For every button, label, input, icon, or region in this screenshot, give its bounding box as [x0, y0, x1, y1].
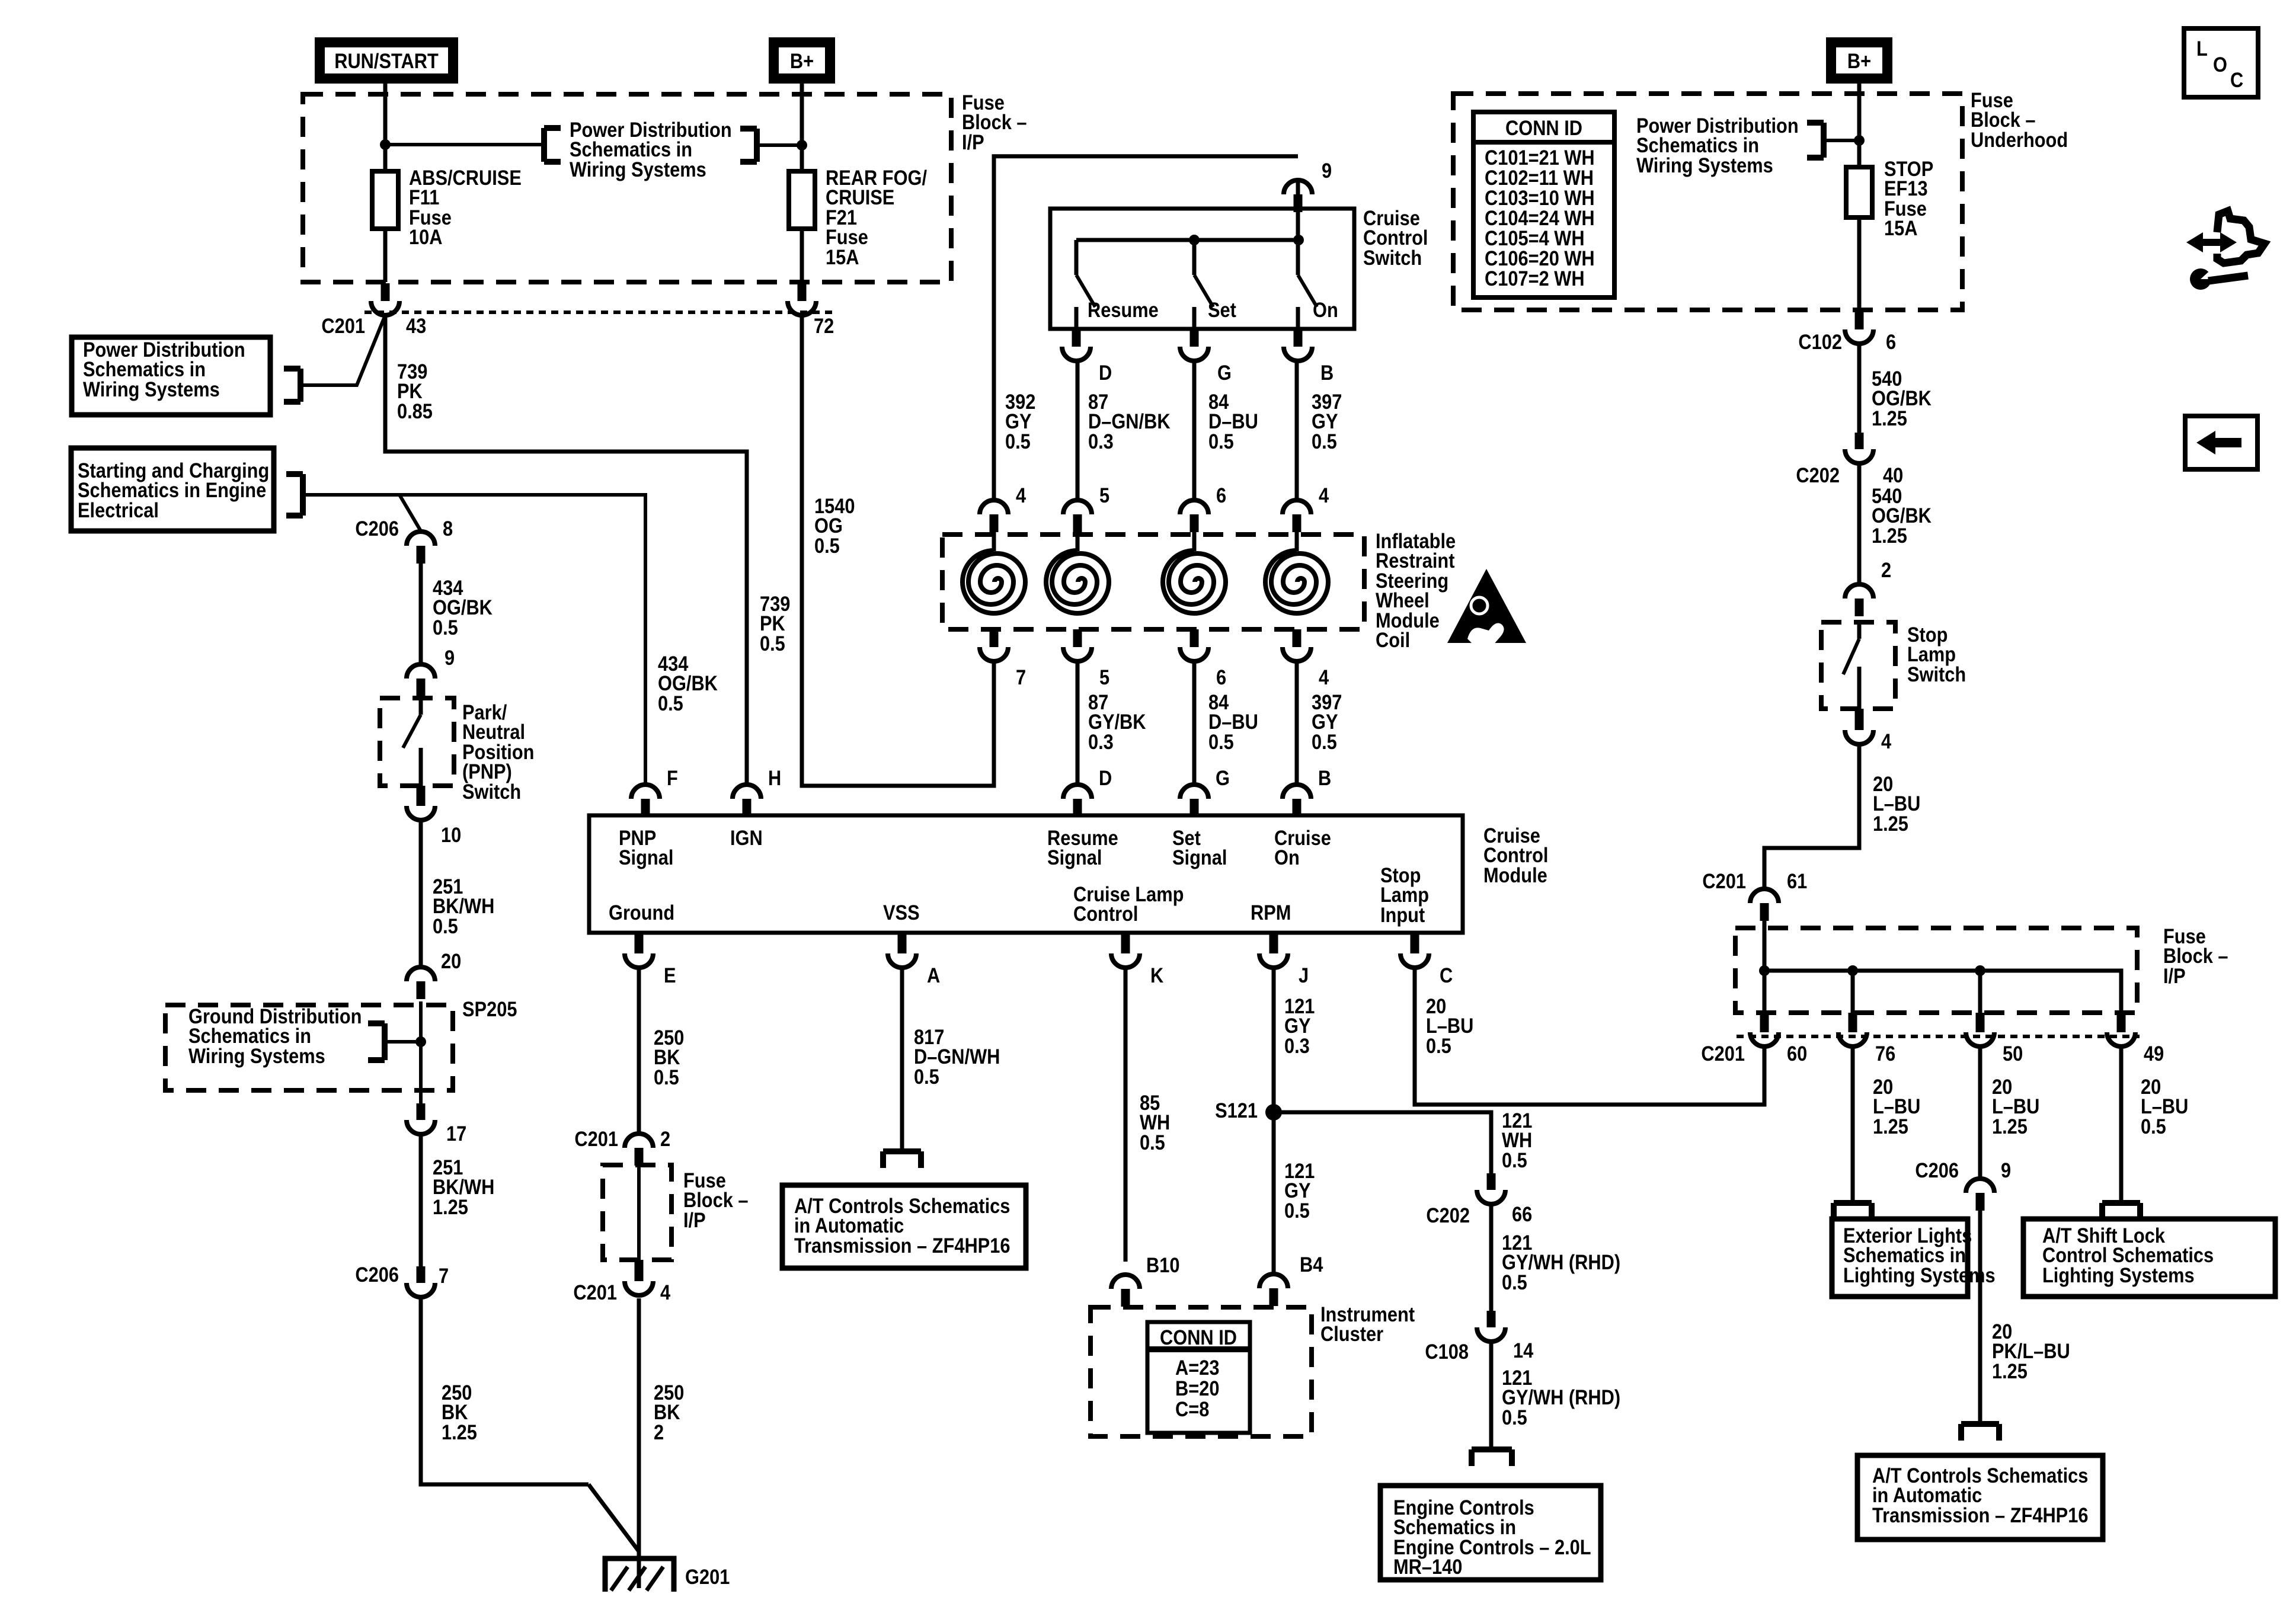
label wire 1540 OG 0.5 — [814, 494, 855, 557]
label C102 6 — [1798, 330, 1896, 353]
label 87 D-GN/BK 0.3 — [1088, 390, 1171, 453]
svg-text:G201: G201 — [685, 1565, 730, 1588]
svg-text:Switch: Switch — [1907, 663, 1966, 686]
label 4 — [1881, 729, 1892, 753]
svg-text:K: K — [1150, 964, 1163, 987]
svg-text:14: 14 — [1513, 1339, 1534, 1362]
label A — [927, 964, 940, 987]
label 251 BK/WH 1.25 — [433, 1156, 494, 1218]
splice S121 — [1265, 1104, 1282, 1121]
reference bracket (power distribution right) — [1807, 123, 1824, 158]
wire RUN/START to fuse F11 — [383, 84, 388, 282]
connector coil bottom pin 4 — [1283, 629, 1311, 661]
label fuse block I/P — [962, 91, 1027, 153]
airbag warning triangle icon — [1447, 569, 1526, 648]
switch internal bus — [1076, 235, 1304, 245]
label park/neutral position (PNP) switch — [462, 700, 534, 803]
reference bracket (A/T controls) — [883, 1151, 921, 1168]
label 397 GY 0.5 — [1312, 390, 1342, 453]
svg-text:0.5: 0.5 — [760, 632, 785, 655]
PNP switch contacts and blade — [403, 698, 421, 786]
connector B10 (instrument cluster) — [1111, 1275, 1140, 1307]
connector module top pin H — [733, 785, 761, 815]
svg-text:B=20: B=20 — [1175, 1377, 1219, 1400]
svg-text:0.5: 0.5 — [1312, 430, 1337, 453]
wire through fuse block — [637, 1166, 641, 1260]
wire 20 PK/L-BU 1.25 — [1978, 1211, 1982, 1424]
svg-text:0.5: 0.5 — [2141, 1115, 2166, 1138]
connector coil top pin 6 — [1180, 500, 1208, 532]
wire to engine controls — [1489, 1342, 1494, 1449]
svg-text:A=23: A=23 — [1175, 1356, 1219, 1379]
connector pin 4 (below stop lamp switch) — [1845, 709, 1873, 744]
label C206 9 — [1915, 1158, 2011, 1182]
connector G below switch — [1180, 329, 1232, 384]
label 84 D-BU 0.5 — [1208, 390, 1258, 453]
wire to power distribution reference (B+) — [757, 143, 802, 147]
label 84 D-BU 0.5 (lower) — [1208, 690, 1258, 753]
svg-text:1.25: 1.25 — [1873, 1115, 1908, 1138]
svg-text:Ground: Ground — [609, 901, 674, 924]
label pin 7 — [1016, 665, 1026, 689]
connector module top pin F — [631, 785, 660, 815]
connector C201 pin 4 — [625, 1260, 653, 1295]
svg-text:Transmission – ZF4HP16: Transmission – ZF4HP16 — [1872, 1503, 2088, 1526]
label K — [1150, 964, 1163, 987]
connector pin 17 — [407, 1103, 435, 1134]
svg-text:20: 20 — [441, 949, 461, 972]
label 72 — [814, 314, 834, 337]
label B10 — [1146, 1253, 1179, 1276]
svg-text:MR–140: MR–140 — [1393, 1555, 1462, 1578]
wire 540 OG/BK 1.25 (2) — [1857, 463, 1862, 584]
label 20 L-BU 0.5 — [1426, 994, 1473, 1057]
svg-text:15A: 15A — [826, 245, 859, 268]
module input labels top row — [619, 826, 1429, 926]
cruise control switch box — [1050, 209, 1354, 329]
connector pin 10 — [407, 786, 435, 820]
svg-text:4: 4 — [1881, 729, 1892, 753]
svg-text:C: C — [2230, 68, 2243, 91]
wire 250 BK 1.25 to ground — [421, 1297, 639, 1551]
coil spiral 3 — [1163, 532, 1226, 613]
wire 20 L-BU 1.25 to C201-61 — [1764, 744, 1859, 889]
svg-text:CONN ID: CONN ID — [1160, 1326, 1237, 1349]
ground symbol G201 — [605, 1558, 674, 1592]
switch On — [1298, 240, 1317, 329]
label power distribution schematics (right) — [1636, 114, 1799, 177]
label pin 4 — [1319, 484, 1329, 507]
fuse block I/P dashed box (top left) — [303, 94, 951, 282]
wire 20 L-BU 0.5 stop lamp input — [1415, 968, 1764, 1105]
svg-text:RUN/START: RUN/START — [334, 49, 439, 72]
label fuse block I/P (right) — [2163, 924, 2228, 987]
svg-text:0.3: 0.3 — [1088, 730, 1114, 753]
svg-text:C201: C201 — [321, 314, 365, 337]
stop lamp switch dashed box — [1821, 622, 1895, 709]
svg-text:Coil: Coil — [1376, 628, 1410, 651]
label fuse block underhood — [1971, 88, 2068, 151]
svg-text:0.5: 0.5 — [1502, 1270, 1527, 1294]
svg-text:0.3: 0.3 — [1088, 430, 1114, 453]
switch Set — [1194, 240, 1213, 329]
label F — [667, 766, 678, 789]
svg-text:C102: C102 — [1798, 330, 1842, 353]
connector coil top pin 5 — [1063, 500, 1092, 532]
svg-text:0.5: 0.5 — [433, 616, 458, 639]
connector C201 pin 43 — [371, 283, 399, 315]
svg-text:0.5: 0.5 — [1426, 1034, 1451, 1057]
svg-text:4: 4 — [1016, 484, 1027, 507]
svg-text:0.5: 0.5 — [1005, 430, 1031, 453]
connector module bottom pin K — [1111, 933, 1140, 968]
wire 739 PK to IGN input H — [385, 315, 747, 785]
label B — [1318, 766, 1331, 789]
svg-text:A: A — [927, 964, 940, 987]
svg-text:Switch: Switch — [1363, 246, 1422, 269]
wire switch pin 9 riser — [994, 156, 1298, 500]
label 20 L-BU 1.25 (76) — [1873, 1075, 1920, 1138]
svg-text:C201: C201 — [1701, 1042, 1745, 1065]
svg-text:60: 60 — [1787, 1042, 1807, 1065]
svg-text:0.5: 0.5 — [658, 692, 683, 715]
connector coil top pin 4 — [980, 500, 1008, 532]
label 20 — [441, 949, 461, 972]
wire through SP205 — [419, 1001, 423, 1103]
reference bracket (engine controls) — [1472, 1449, 1512, 1466]
connector D below switch — [1062, 329, 1112, 384]
label pin 5 — [1099, 484, 1109, 507]
svg-text:D: D — [1099, 766, 1112, 789]
wires D G B to coil — [1077, 361, 1297, 500]
label wire 739 PK 0.85 — [397, 360, 433, 423]
svg-text:5: 5 — [1099, 484, 1109, 507]
connector C206 pin 9 — [1966, 1179, 1994, 1211]
reference box starting and charging schematics — [71, 448, 274, 531]
svg-text:40: 40 — [1883, 463, 1903, 487]
wire 121 GY/WH (RHD) — [1489, 1204, 1494, 1311]
connector C201 pin 49 — [2107, 1013, 2135, 1046]
connector C102 pin 6 — [1845, 310, 1873, 344]
connector C108 pin 14 — [1477, 1311, 1505, 1342]
svg-text:Module: Module — [1483, 863, 1547, 886]
instrument cluster dashed box — [1091, 1307, 1312, 1436]
svg-text:Signal: Signal — [1172, 846, 1227, 869]
svg-text:4: 4 — [1319, 484, 1329, 507]
label On — [1313, 298, 1338, 321]
svg-text:8: 8 — [443, 517, 453, 540]
coil spiral 2 — [1046, 532, 1109, 613]
wire 250 BK 2 to ground — [637, 1298, 641, 1588]
svg-text:17: 17 — [446, 1122, 466, 1145]
svg-text:L: L — [2196, 37, 2208, 60]
splice node SP205 — [415, 1036, 426, 1047]
connector coil bottom pin 6 — [1180, 629, 1208, 661]
svg-text:0.5: 0.5 — [1208, 430, 1234, 453]
power feed B+ (right) — [1826, 37, 1892, 84]
svg-text:I/P: I/P — [683, 1208, 706, 1231]
wire bracket to B+ feed — [1824, 139, 1859, 142]
label S121 — [1215, 1099, 1258, 1122]
wires coil to module inputs — [1077, 661, 1297, 785]
svg-text:Signal: Signal — [619, 846, 673, 869]
svg-text:0.5: 0.5 — [1208, 730, 1234, 753]
svg-text:H: H — [768, 766, 781, 789]
LOC legend box — [2184, 28, 2258, 97]
label Resume — [1088, 298, 1159, 321]
label G — [1216, 766, 1230, 789]
svg-text:0.5: 0.5 — [814, 534, 840, 557]
connector C202 pin 40 — [1845, 433, 1873, 463]
label 250 BK 2 — [654, 1381, 684, 1444]
label pin 6 — [1216, 665, 1226, 689]
wire 20 L-BU 1.25 (pin 76) — [1851, 1046, 1855, 1203]
svg-text:Wiring Systems: Wiring Systems — [1636, 153, 1773, 177]
label 251 BK/WH 0.5 — [433, 875, 494, 937]
svg-text:C201: C201 — [574, 1127, 618, 1150]
label wire 739 PK 0.5 — [760, 592, 790, 655]
label C — [1440, 964, 1453, 987]
svg-text:9: 9 — [445, 646, 455, 669]
label C202 66 — [1426, 1202, 1532, 1227]
connector C206 pin 8 — [407, 532, 435, 564]
reference box exterior lights schematics — [1832, 1219, 1996, 1297]
fuse F21 REAR FOG/CRUISE 15A — [789, 171, 815, 229]
label C201 2 — [574, 1127, 670, 1150]
svg-text:Signal: Signal — [1047, 846, 1102, 869]
wire B+ to fuse F21 — [800, 84, 804, 282]
label pin 6 — [1216, 484, 1226, 507]
reference bracket (power distribution, left) — [544, 128, 561, 162]
reference bracket (starting and charging) — [286, 474, 303, 516]
label 76 — [1875, 1042, 1895, 1065]
reference bracket (power distribution, right side of text) — [740, 129, 757, 162]
label fuse EF13 — [1884, 157, 1933, 239]
fuse F11 ABS/CRUISE 10A — [372, 171, 398, 229]
label C108 14 — [1425, 1339, 1533, 1363]
label D — [1099, 766, 1112, 789]
reference bracket at power distribution box — [284, 369, 300, 402]
label C201 43 — [321, 314, 426, 337]
svg-text:10: 10 — [441, 823, 461, 846]
label 121 WH 0.5 — [1502, 1109, 1532, 1172]
label 121 GY/WH (RHD) 0.5 — [1502, 1231, 1620, 1294]
label J — [1299, 964, 1309, 987]
label H — [768, 766, 781, 789]
svg-text:50: 50 — [2003, 1042, 2023, 1065]
connector pin 9 (PNP switch) — [407, 664, 435, 696]
wire 251 BK/WH 0.5 — [419, 820, 423, 966]
label C201 (bottom row) — [1701, 1042, 1745, 1065]
wire 85 WH 0.5 — [1124, 968, 1128, 1262]
svg-text:1.25: 1.25 — [1992, 1359, 2028, 1382]
label inflatable restraint steering wheel module coil — [1376, 529, 1456, 651]
label 817 D-GN/WH 0.5 — [914, 1025, 1000, 1088]
label pin 5 — [1099, 665, 1109, 689]
svg-text:15A: 15A — [1884, 216, 1917, 239]
svg-text:76: 76 — [1875, 1042, 1895, 1065]
svg-text:B: B — [1318, 766, 1331, 789]
reference bracket (A/T controls right) — [1961, 1424, 1999, 1441]
cruise control module box — [589, 815, 1463, 933]
svg-text:IGN: IGN — [730, 826, 763, 849]
label 85 WH 0.5 — [1140, 1091, 1170, 1154]
wire to power distribution reference — [385, 143, 544, 146]
label 434 OG/BK 0.5 (F branch) — [658, 652, 718, 715]
svg-text:43: 43 — [406, 314, 426, 337]
connector module bottom pin A — [888, 933, 916, 968]
svg-text:0.5: 0.5 — [1140, 1131, 1165, 1154]
label C201 4 — [573, 1281, 670, 1304]
module output labels bottom row — [609, 882, 1291, 925]
svg-text:Wiring Systems: Wiring Systems — [188, 1044, 325, 1067]
svg-text:49: 49 — [2144, 1042, 2164, 1065]
svg-text:0.85: 0.85 — [397, 399, 433, 423]
label instrument cluster — [1320, 1302, 1415, 1345]
connector coil top pin 4 — [1283, 500, 1311, 532]
connector pin 20 (into SP205) — [407, 967, 435, 999]
svg-text:1.25: 1.25 — [442, 1420, 477, 1444]
wire 540 OG/BK 1.25 — [1857, 344, 1862, 433]
reference bracket (exterior lights) — [1834, 1203, 1872, 1220]
svg-text:1.25: 1.25 — [1872, 407, 1907, 430]
svg-text:0.5: 0.5 — [1284, 1199, 1310, 1222]
svg-text:C206: C206 — [1915, 1158, 1959, 1182]
wire 817 D-GN/WH — [900, 968, 904, 1151]
svg-text:Control: Control — [1073, 902, 1138, 925]
label 540 OG/BK 1.25 (2) — [1872, 484, 1932, 547]
dotted connector row C201 — [1737, 1035, 2140, 1038]
connector C201 pin 50 — [1966, 1013, 1994, 1046]
label 121 GY 0.5 — [1284, 1159, 1315, 1222]
svg-text:4: 4 — [660, 1281, 671, 1304]
svg-text:Input: Input — [1380, 903, 1425, 926]
bus junction nodes — [1759, 965, 1985, 976]
svg-text:Cluster: Cluster — [1320, 1322, 1383, 1345]
svg-text:1.25: 1.25 — [1872, 524, 1907, 547]
label 250 BK 1.25 — [442, 1381, 477, 1444]
svg-text:1.25: 1.25 — [1992, 1115, 2028, 1138]
wire B+ to fuse EF13 — [1857, 84, 1862, 310]
label C202 40 — [1796, 463, 1903, 487]
svg-text:Wiring Systems: Wiring Systems — [570, 158, 706, 181]
label 60 — [1787, 1042, 1807, 1065]
wire 250 BK 0.5 — [637, 968, 641, 1134]
svg-text:Transmission – ZF4HP16: Transmission – ZF4HP16 — [794, 1234, 1010, 1257]
label stop lamp switch — [1907, 623, 1966, 686]
label 434 OG/BK 0.5 — [433, 576, 493, 639]
label ground distribution schematics — [188, 1004, 362, 1067]
fuse block underhood dashed box — [1453, 94, 1962, 310]
label 2 — [1881, 558, 1891, 581]
svg-text:0.5: 0.5 — [914, 1065, 939, 1088]
svg-text:Wiring Systems: Wiring Systems — [83, 377, 220, 401]
svg-text:0.5: 0.5 — [1312, 730, 1337, 753]
svg-text:On: On — [1313, 298, 1338, 321]
label G201 — [685, 1565, 730, 1588]
svg-text:J: J — [1299, 964, 1309, 987]
connector 9 (cruise switch) — [1284, 180, 1312, 212]
wire 251 BK/WH 1.25 — [419, 1134, 423, 1266]
svg-text:6: 6 — [1216, 665, 1226, 689]
svg-text:Set: Set — [1208, 298, 1236, 321]
svg-text:Lighting Systems: Lighting Systems — [1843, 1263, 1996, 1286]
svg-text:C201: C201 — [573, 1281, 617, 1304]
wire 121 GY — [1272, 968, 1276, 1274]
label 121 GY 0.3 — [1284, 994, 1315, 1057]
stop lamp switch contacts and blade — [1843, 622, 1859, 709]
svg-text:G: G — [1217, 361, 1232, 384]
connector C201 pin 61 — [1750, 889, 1779, 921]
svg-text:Electrical: Electrical — [78, 498, 159, 521]
connector coil bottom pin 5 — [1063, 629, 1092, 661]
power feed B+ (left) — [769, 37, 835, 84]
svg-text:7: 7 — [439, 1264, 449, 1287]
svg-text:72: 72 — [814, 314, 834, 337]
svg-text:B10: B10 — [1146, 1253, 1179, 1276]
label Set — [1208, 298, 1236, 321]
label 9 — [1322, 159, 1332, 182]
svg-text:Underhood: Underhood — [1971, 128, 2068, 151]
connector C201 pin 60 — [1750, 1013, 1779, 1046]
svg-text:C: C — [1440, 964, 1453, 987]
svg-text:B+: B+ — [790, 49, 814, 72]
svg-text:0.5: 0.5 — [1502, 1148, 1527, 1172]
wire S121 branch 121 WH — [1274, 1112, 1491, 1173]
svg-text:RPM: RPM — [1251, 901, 1291, 924]
label 20 L-BU 0.5 (49) — [2141, 1075, 2188, 1138]
connector coil bottom pin 7 — [980, 629, 1008, 661]
fuse EF13 STOP 15A — [1846, 167, 1872, 217]
label 121 GY/WH (RHD) 0.5 (lower) — [1502, 1366, 1620, 1429]
wire bracket to splice — [385, 1040, 421, 1044]
reference box A/T controls schematics — [782, 1185, 1026, 1268]
branch wire to power distribution box — [300, 315, 385, 385]
label cruise control module — [1483, 824, 1548, 886]
label cruise control switch — [1363, 206, 1428, 269]
label 87 GY/BK 0.3 — [1088, 690, 1146, 753]
svg-text:C206: C206 — [355, 1263, 399, 1286]
svg-text:C107=2 WH: C107=2 WH — [1485, 267, 1585, 290]
label fuse block I/P (ground path) — [683, 1169, 749, 1231]
connector module bottom pin E — [625, 933, 653, 968]
svg-text:6: 6 — [1886, 330, 1896, 353]
junction node on B+ feed — [797, 140, 807, 151]
fuse block internal bus — [1764, 921, 2121, 1013]
label 250 BK 0.5 — [654, 1026, 684, 1089]
svg-text:C202: C202 — [1426, 1204, 1470, 1227]
reference box engine controls schematics — [1380, 1486, 1601, 1580]
junction node on RUN/START feed — [380, 139, 391, 150]
connector C201 pin 76 — [1838, 1013, 1867, 1046]
label B4 — [1300, 1253, 1323, 1276]
label fuse F11 — [409, 166, 522, 248]
svg-text:Resume: Resume — [1088, 298, 1159, 321]
svg-text:B4: B4 — [1300, 1253, 1323, 1276]
label 397 GY 0.5 (lower) — [1312, 690, 1342, 753]
svg-text:0.5: 0.5 — [654, 1065, 679, 1089]
label 10 — [441, 823, 461, 846]
svg-text:F: F — [667, 766, 678, 789]
wire 1540 OG to coil pin 7 — [802, 315, 994, 786]
branch wire into connector C206 pin 8 — [399, 495, 421, 531]
svg-text:D: D — [1099, 361, 1112, 384]
svg-text:I/P: I/P — [2163, 964, 2186, 987]
svg-text:B+: B+ — [1847, 49, 1871, 72]
reference bracket (ground distribution) — [368, 1023, 385, 1060]
svg-text:1.25: 1.25 — [1873, 812, 1908, 835]
svg-text:9: 9 — [2001, 1158, 2011, 1182]
